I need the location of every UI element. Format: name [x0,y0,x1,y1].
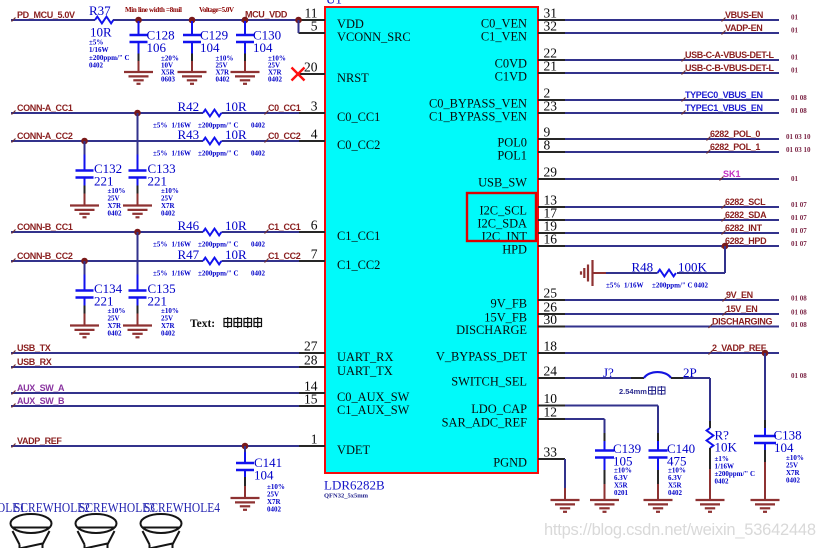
wire SWITCH_SEL [565,377,631,379]
no-connect X on pin 20 [292,68,305,81]
junction [134,110,141,117]
svg-text:I2C_SDA: I2C_SDA [477,217,527,231]
svg-text:±5%: ±5% [153,241,167,249]
capacitor C128 [138,21,140,35]
svg-text:VCONN_SRC: VCONN_SRC [337,30,411,44]
svg-text:1/16W: 1/16W [624,282,643,290]
svg-text:USB_RX: USB_RX [17,357,52,367]
svg-text:12: 12 [544,405,558,420]
ground [696,500,725,512]
pin 17 (I2C_SDA) stub+number+name [538,219,565,221]
svg-text:01 08: 01 08 [791,94,807,102]
svg-text:0402: 0402 [108,210,123,218]
svg-text:USB-C-A-VBUS-DET-L: USB-C-A-VBUS-DET-L [685,50,775,60]
svg-text:0603: 0603 [161,76,176,84]
svg-text:01 08: 01 08 [791,372,807,380]
junction [242,17,249,24]
svg-text:01 07: 01 07 [791,201,807,209]
red highlight box around I2C pins [467,193,536,241]
svg-text:0402: 0402 [268,76,283,84]
svg-text:104: 104 [253,40,273,55]
svg-text:2.54mm: 2.54mm [619,387,647,396]
wire net 6282_POL_1 [565,151,779,153]
svg-text:C1_CC1: C1_CC1 [268,222,301,232]
svg-text:28: 28 [304,353,318,368]
pin 27 (UART_RX) stub+number+name [299,352,326,354]
svg-text:Text:: Text: [190,318,215,330]
svg-text:6282_INT: 6282_INT [725,223,763,233]
svg-text:HPD: HPD [502,243,527,257]
resistor R46 [203,229,221,236]
svg-text:DISCHARGING: DISCHARGING [712,317,773,327]
junction [295,17,302,24]
junction [762,350,769,357]
wire net CONN-B_CC2 [11,260,203,262]
svg-text:USB-C-B-VBUS-DET-L: USB-C-B-VBUS-DET-L [685,63,775,73]
ground [124,72,153,84]
wire PGND [564,459,566,488]
svg-text:UART_TX: UART_TX [337,364,393,378]
svg-text:CONN-A_CC2: CONN-A_CC2 [17,131,73,141]
capacitor C139 [595,451,614,458]
svg-text:USB_SW: USB_SW [478,176,527,190]
svg-text:C1_BYPASS_VEN: C1_BYPASS_VEN [429,110,527,124]
svg-text:0402: 0402 [251,270,266,278]
wire net USB_TX [11,352,299,354]
wire net PD_MCU_5.0V [11,19,95,21]
junction [722,243,729,250]
svg-text:U1: U1 [326,0,342,7]
svg-text:01 07: 01 07 [791,240,807,248]
svg-text:VDET: VDET [337,443,370,457]
svg-text:23: 23 [544,99,558,114]
svg-text:01 08: 01 08 [791,107,807,115]
junction [134,229,141,236]
svg-text:6282_SDA: 6282_SDA [725,210,767,220]
pin 12 (SAR_ADC_REF) stub+number+name [538,418,565,420]
svg-text:104: 104 [254,468,274,483]
svg-text:C1_CC1: C1_CC1 [337,229,380,243]
wire net USB_RX [11,366,299,368]
svg-text:C1_VEN: C1_VEN [481,30,527,44]
svg-text:C0_BYPASS_VEN: C0_BYPASS_VEN [429,97,527,111]
svg-text:0402: 0402 [251,122,266,130]
svg-text:0402: 0402 [715,478,730,486]
svg-text:USB_TX: USB_TX [17,343,51,353]
svg-text:4: 4 [311,127,318,142]
svg-text:20: 20 [304,60,318,75]
wire net 2_VADP_REF [565,352,779,354]
pin 2 (C0_BYPASS_VEN) stub+number+name [538,99,565,101]
junction [242,443,249,450]
wire net TYPEC0_VBUS_EN [565,99,779,101]
wire net 15V_EN [565,313,779,315]
svg-text:0402: 0402 [267,506,282,514]
pin 7 (C1_CC2) stub+number+name [299,260,326,262]
svg-text:R37: R37 [89,3,111,18]
svg-text:0402: 0402 [251,150,266,158]
wire LDO_CAP to C140 [565,405,658,407]
pin 25 (9V_FB) stub+number+name [538,299,565,301]
svg-text:15: 15 [304,392,318,407]
wire net USB-C-B-VBUS-DET-L [565,72,779,74]
pin 29 (USB_SW) stub+number+name [538,178,565,180]
svg-text:POL0: POL0 [497,136,527,150]
svg-text:±5%: ±5% [153,270,167,278]
wire net CONN-B_CC1 [11,231,203,233]
svg-text:01: 01 [791,67,799,75]
svg-text:32: 32 [544,19,558,34]
svg-text:3: 3 [311,99,318,114]
svg-text:9V_EN: 9V_EN [726,290,753,300]
svg-text:AUX_SW_A: AUX_SW_A [17,383,65,393]
svg-text:01 08: 01 08 [791,309,807,317]
svg-text:SWITCH_SEL: SWITCH_SEL [451,375,527,389]
pin 10 (LDO_CAP) stub+number+name [538,405,565,407]
svg-text:R47: R47 [178,247,200,262]
svg-text:R46: R46 [178,218,200,233]
pin 33 (PGND) stub+number+name [538,458,565,460]
svg-text:30: 30 [544,312,558,327]
ground [123,326,152,338]
svg-text:8: 8 [544,138,551,153]
svg-text:104: 104 [200,40,220,55]
pin 26 (15V_FB) stub+number+name [538,313,565,315]
pin 24 (SWITCH_SEL) stub+number+name [538,377,565,379]
svg-text:7: 7 [311,247,318,262]
svg-text:PD_MCU_5.0V: PD_MCU_5.0V [17,10,75,20]
svg-text:01 03 10: 01 03 10 [786,146,811,154]
ground [231,72,260,84]
svg-text:R43: R43 [178,127,200,142]
capacitor C132 [84,141,86,155]
svg-text:6282_POL_0: 6282_POL_0 [710,129,760,139]
svg-text:1/16W: 1/16W [172,270,191,278]
wire net VADP-EN [565,32,779,34]
wire net TYPEC1_VBUS_EN [565,112,779,114]
wire net 9V_EN [565,299,779,301]
pin 28 (UART_TX) stub+number+name [299,366,326,368]
ground [123,206,152,218]
screw hole symbol at x=96 [76,514,117,548]
wire net 6282_HPD [565,245,779,247]
svg-text:C0_CC2: C0_CC2 [268,131,301,141]
pin 6 (C1_CC1) stub+number+name [299,231,326,233]
svg-text:0402: 0402 [694,282,709,290]
capacitor C138 [754,436,776,443]
screw hole symbol at x=161 [141,514,182,548]
wire net 6282_SCL [565,206,779,208]
pin 23 (C1_BYPASS_VEN) stub+number+name [538,112,565,114]
svg-text:33: 33 [544,445,558,460]
svg-text:1/16W: 1/16W [172,150,191,158]
svg-text:6282_HPD: 6282_HPD [725,236,767,246]
svg-text:104: 104 [774,440,794,455]
pin 30 (DISCHARGE) stub+number+name [538,326,565,328]
junction [189,17,196,24]
svg-text:0201: 0201 [614,489,629,497]
svg-text:25: 25 [544,286,558,301]
svg-text:29: 29 [544,165,558,180]
svg-text:LDO_CAP: LDO_CAP [471,402,527,416]
svg-text:CONN-B_CC2: CONN-B_CC2 [17,251,73,261]
svg-text:C1_CC2: C1_CC2 [268,251,301,261]
junction [81,258,88,265]
pin 1 (VDET) stub+number+name [299,445,326,447]
wire net AUX_SW_B [11,405,299,407]
svg-text:V_BYPASS_DET: V_BYPASS_DET [436,350,528,364]
pin 9 (POL0) stub+number+name [538,138,565,140]
resistor R47 [203,258,221,265]
svg-text:C1_AUX_SW: C1_AUX_SW [337,403,410,417]
svg-text:0402: 0402 [786,477,801,485]
svg-text:10R: 10R [90,25,112,40]
capacitor C130 [244,21,246,35]
svg-text:15V_EN: 15V_EN [726,304,757,314]
svg-text:VDD: VDD [337,17,364,31]
ground [751,500,780,512]
svg-text:0402: 0402 [216,76,231,84]
svg-text:10R: 10R [225,247,247,262]
pin 20 (NRST) stub+number+name [299,73,326,75]
svg-text:10K: 10K [715,440,738,455]
svg-text:C0_VEN: C0_VEN [481,17,527,31]
wire net USB-C-A-VBUS-DET-L [565,59,779,61]
svg-text:0402: 0402 [108,330,123,338]
svg-text:01: 01 [791,27,799,35]
svg-text:VADP-EN: VADP-EN [725,23,762,33]
resistor R? [707,428,714,448]
pin 3 (C0_CC1) stub+number+name [299,112,326,114]
wire jumper to R? [683,377,710,379]
svg-text:NRST: NRST [337,71,369,85]
svg-text:QFN32_5x5mm: QFN32_5x5mm [324,493,369,500]
svg-text:1: 1 [311,432,318,447]
svg-text:6282_SCL: 6282_SCL [725,197,766,207]
svg-text:10R: 10R [225,218,247,233]
svg-text:±200ppm/" C: ±200ppm/" C [652,282,693,290]
wire net VBUS-EN [565,19,779,21]
pin 18 (V_BYPASS_DET) stub+number+name [538,352,565,354]
svg-text:18: 18 [544,339,558,354]
junction [135,17,142,24]
svg-text:VADP_REF: VADP_REF [17,436,62,446]
svg-text:DISCHARGE: DISCHARGE [456,323,527,337]
svg-text:POL1: POL1 [497,149,527,163]
wire net VADP_REF [11,445,299,447]
resistor R48 [658,270,676,277]
pin 21 (C1VD) stub+number+name [538,72,565,74]
svg-text:100K: 100K [678,260,708,275]
wire SAR_ADC_REF to C139 [565,418,605,420]
svg-text:MCU_VDD: MCU_VDD [245,10,288,20]
pin 15 (C1_AUX_SW) stub+number+name [299,405,326,407]
resistor R37 [95,17,113,24]
svg-text:±200ppm/" C: ±200ppm/" C [198,150,239,158]
svg-text:0402: 0402 [161,330,176,338]
pin 16 (HPD) stub+number+name [538,245,565,247]
ground (rotated) for R48 [594,272,607,274]
svg-text:CONN-B_CC1: CONN-B_CC1 [17,222,73,232]
svg-text:5: 5 [311,19,318,34]
svg-text:C0_CC1: C0_CC1 [337,110,380,124]
svg-text:SAR_ADC_REF: SAR_ADC_REF [442,416,527,430]
pin 8 (POL1) stub+number+name [538,151,565,153]
svg-text:01: 01 [791,54,799,62]
svg-text:VBUS-EN: VBUS-EN [725,10,763,20]
svg-text:01 08: 01 08 [791,295,807,303]
svg-text:C1_CC2: C1_CC2 [337,258,380,272]
svg-text:SCREWHOLE4: SCREWHOLE4 [144,500,220,515]
svg-text:J?: J? [603,365,614,380]
wire net 6282_INT [565,232,779,234]
svg-text:6282_POL_1: 6282_POL_1 [710,142,760,152]
svg-text:SK1: SK1 [723,169,741,179]
svg-text:10R: 10R [225,99,247,114]
svg-text:01: 01 [791,175,799,183]
junction [81,138,88,145]
svg-text:1/16W: 1/16W [89,46,108,54]
svg-text:±5%: ±5% [153,122,167,130]
screw hole symbol at x=31 [11,514,52,548]
wire net DISCHARGING [565,326,779,328]
svg-text:±5%: ±5% [606,282,620,290]
wire net 6282_POL_0 [565,138,779,140]
pin 13 (I2C_SCL) stub+number+name [538,206,565,208]
svg-text:0402: 0402 [251,241,266,249]
ground [551,500,580,512]
capacitor C135 [137,232,139,275]
svg-text:LDR6282B: LDR6282B [324,478,385,493]
pin 14 (C0_AUX_SW) stub+number+name [299,392,326,394]
svg-text:0402: 0402 [89,62,104,70]
pin 32 (C1_VEN) stub+number+name [538,32,565,34]
svg-text:9V_FB: 9V_FB [491,297,528,311]
svg-text:±200ppm/" C: ±200ppm/" C [198,270,239,278]
svg-text:AUX_SW_B: AUX_SW_B [17,396,65,406]
connector/jumper J? 2P [631,377,644,379]
svg-text:C0VD: C0VD [495,57,527,71]
svg-text:C0_AUX_SW: C0_AUX_SW [337,390,410,404]
wire net CONN-A_CC1 [11,112,203,114]
wire net CONN-A_CC2 [11,140,203,142]
svg-text:10R: 10R [225,127,247,142]
svg-text:R48: R48 [632,260,654,275]
resistor R43 [203,138,221,145]
capacitor C141 [244,446,246,452]
svg-text:21: 21 [544,59,558,74]
svg-text:TYPEC1_VBUS_EN: TYPEC1_VBUS_EN [685,103,763,113]
pin 22 (C0VD) stub+number+name [538,59,565,61]
svg-text:24: 24 [544,364,558,379]
svg-text:01 08: 01 08 [791,321,807,329]
svg-text:C1VD: C1VD [495,70,527,84]
svg-text:01: 01 [791,14,799,22]
ground [178,72,207,84]
svg-text:16: 16 [544,232,558,247]
ground [70,206,99,218]
capacitor C134 [84,261,86,275]
pin 4 (C0_CC2) stub+number+name [299,140,326,142]
wire net AUX_SW_A [11,392,299,394]
wire net SK1 [565,178,779,180]
svg-text:Voltage=5.0V: Voltage=5.0V [199,6,234,14]
svg-text:PGND: PGND [493,456,527,470]
svg-text:0402: 0402 [161,210,176,218]
svg-text:01 07: 01 07 [791,227,807,235]
resistor R42 [203,110,221,117]
svg-text:R42: R42 [178,99,200,114]
ground [590,500,619,512]
wire branch to pin 5 [298,20,300,33]
svg-text:I2C_SCL: I2C_SCL [479,204,527,218]
svg-text:2_VADP_REF: 2_VADP_REF [712,343,767,353]
svg-text:Min line width =8mil: Min line width =8mil [125,6,182,14]
capacitor C140 [649,451,668,458]
svg-text:27: 27 [304,339,318,354]
svg-text:UART_RX: UART_RX [337,350,393,364]
pin 31 (C0_VEN) stub+number+name [538,19,565,21]
svg-text:CONN-A_CC1: CONN-A_CC1 [17,103,73,113]
svg-text:0402: 0402 [668,489,683,497]
ground [70,326,99,338]
svg-text:C0_CC1: C0_CC1 [268,103,301,113]
wire net 6282_SDA [565,219,779,221]
ground [231,498,260,510]
svg-text:01 03 10: 01 03 10 [786,133,811,141]
svg-text:106: 106 [147,40,167,55]
svg-text:±5%: ±5% [153,150,167,158]
svg-text:6: 6 [311,218,318,233]
svg-text:C0_CC2: C0_CC2 [337,138,380,152]
capacitor C133 [137,113,139,155]
pin 5 (VCONN_SRC) stub+number+name [299,32,326,34]
pin 19 (I2C_INT) stub+number+name [538,232,565,234]
svg-text:TYPEC0_VBUS_EN: TYPEC0_VBUS_EN [685,90,763,100]
pin 11 (VDD) stub+number+name [299,19,326,21]
capacitor C129 [191,21,193,35]
svg-text:01 07: 01 07 [791,214,807,222]
svg-text:https://blog.csdn.net/weixin_5: https://blog.csdn.net/weixin_53642448 [544,521,816,539]
op-amp/IC U1 LDR6282B body [325,7,538,473]
ground [644,500,673,512]
